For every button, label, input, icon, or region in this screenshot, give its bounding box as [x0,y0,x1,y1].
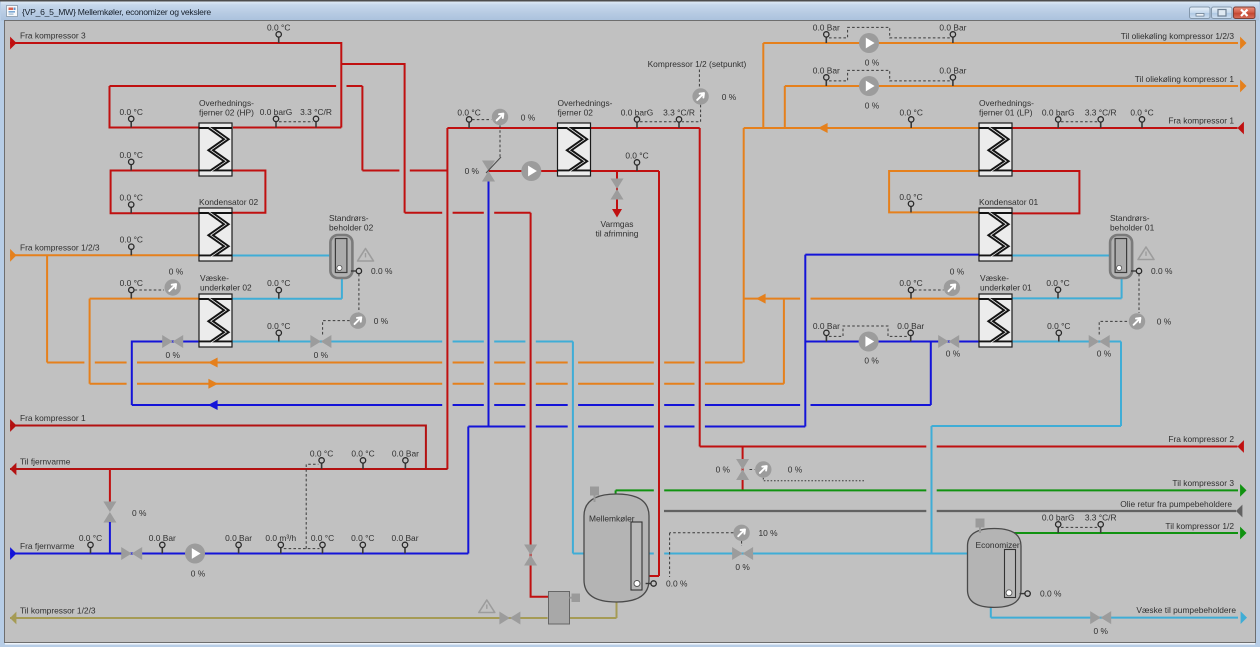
sensor P1 discharge 0.0 Bar [952,34,954,43]
svg-text:Overhednings-: Overhednings- [558,98,613,108]
svg-text:Til oliekøling kompressor 1/2/: Til oliekøling kompressor 1/2/3 [1121,31,1235,41]
svg-text:0.0 Bar: 0.0 Bar [939,22,966,32]
sensor HX01 out 0.0C [1141,119,1143,128]
svg-text:0 %: 0 % [865,58,880,68]
svg-text:Til kompressor 1/2/3: Til kompressor 1/2/3 [20,606,96,616]
valve cyan bus V9 [310,335,331,348]
svg-text:0 %: 0 % [169,267,184,277]
svg-text:0.0 °C: 0.0 °C [120,235,143,245]
svg-text:0.0 °C: 0.0 °C [267,321,290,331]
wire til kompressor 1/2 [1012,532,1238,534]
sensor fra fjernvarme C2 [322,545,324,554]
svg-text:0.0 %: 0.0 % [666,578,688,588]
gauge vaeske01 G6 [944,280,960,296]
svg-text:0.0 °C: 0.0 °C [351,448,374,458]
vessel economizer [968,529,1022,608]
wire vaeske02 bottom feed blue [132,342,199,406]
svg-text:0.0 Bar: 0.0 Bar [392,448,419,458]
sensor til komp 1/2 barG [1057,524,1059,533]
vessel mellemkoler [584,494,649,602]
wire orange main right y128 [744,128,979,363]
svg-text:0.0 °C: 0.0 °C [900,107,923,117]
svg-text:underkøler 02: underkøler 02 [200,283,252,293]
svg-text:Væske til pumpebeholdere: Væske til pumpebeholdere [1136,605,1236,615]
sensor mellemkoler level [646,583,654,585]
stub economizer top [976,519,985,528]
wire HX02HP sensor line [233,127,341,129]
window icon [7,6,18,17]
sensor economizer level [1020,593,1028,595]
wire fra kompressor 1/2/3 [10,254,199,256]
level indicator mellemkoler [631,522,642,590]
svg-text:0 %: 0 % [521,112,536,122]
svg-text:0.0 °C: 0.0 °C [120,150,143,160]
gauge V10 position [733,525,749,541]
wire center pump line [489,171,660,576]
svg-text:Varmgas: Varmgas [601,219,634,229]
svg-text:0.0 °C: 0.0 °C [79,533,102,543]
wire dashed V10 [670,533,742,577]
valve economizer outlet V12 [1090,611,1111,624]
wire dotted gauge V3 tail [763,478,865,481]
svg-text:fjerner 02: fjerner 02 [558,108,594,118]
svg-text:0.0 °C: 0.0 °C [267,22,290,32]
arrow til fjernvarme [10,463,16,476]
arrow til oliekoling 1/2/3 [1240,37,1246,50]
svg-text:0 %: 0 % [950,267,965,277]
wire center box left edge [446,128,448,469]
svg-text:Overhednings-: Overhednings- [199,98,254,108]
sensor HX02HP C/R [315,119,317,128]
sensor fra fjernvarme Bar2 [238,545,240,554]
title bar [1,2,1259,21]
arrow til kompressor 3 [1240,484,1246,497]
svg-text:0 %: 0 % [716,465,731,475]
arrow orange y128 left [818,123,828,133]
wire dashed V3 valve-gauge [750,469,755,471]
svg-text:0.0 Bar: 0.0 Bar [813,22,840,32]
sensor HX01 in 0.0C [910,119,912,128]
svg-text:0.0 °C: 0.0 °C [457,107,480,117]
valve mellemkoler feed V1 [524,545,537,566]
svg-text:0 %: 0 % [165,350,180,360]
svg-text:0.0 barG: 0.0 barG [1042,107,1075,117]
wire vaeske02 feed [90,299,199,384]
svg-text:Overhednings-: Overhednings- [979,98,1034,108]
svg-text:0.0 °C: 0.0 °C [351,533,374,543]
svg-text:0 %: 0 % [1093,626,1108,636]
sensor til komp 1/2 C/R [1100,524,1102,533]
svg-text:0.0 Bar: 0.0 Bar [813,321,840,331]
wire valve drop x489 [488,178,490,427]
valve varmgas V2 [611,179,624,200]
sensor P2 suction 0.0 Bar [825,77,827,86]
wire cyan drop x573 [572,342,574,554]
wire fra kompressor 2 [700,446,1238,448]
wire dashed standror02 [323,274,359,335]
wire fra kompressor 1 left [10,426,426,470]
sensor HX01 C/R [1100,119,1102,128]
wire HX02HP out descent [361,86,363,171]
svg-text:0.0 m³/h: 0.0 m³/h [265,533,296,543]
wire til kompressor 3 [615,490,617,496]
wire dashed green sensors [1061,526,1098,528]
wire til oliekoling 1/2/3 [763,43,1238,128]
wire kondensator02 to standror02 [233,255,332,257]
valve vaeske01 feed V8 [938,335,959,348]
sensor center C/R [678,119,680,128]
wire blue right riser [804,255,806,427]
wire valve drop to suction [742,447,744,491]
svg-text:Kondensator 02: Kondensator 02 [199,197,258,207]
svg-text:0 %: 0 % [946,349,961,359]
wire til kompressor 3 line [616,489,1238,491]
svg-text:0 %: 0 % [314,350,329,360]
arrow til kompressor 1/2 [1240,527,1246,540]
arrow til kompressor 1/2/3 [10,612,16,625]
arrow fra kompressor 1 right [1238,122,1244,135]
wire y170 to center [362,170,447,172]
wire mellemkoler inlet [573,553,584,555]
arrow vaeske til pumpebeholdere [1241,611,1247,624]
sensor HX02HP in 0.0C [130,119,132,128]
level indicator economizer [1005,550,1016,598]
svg-text:3.3 °C/R: 3.3 °C/R [1085,512,1117,522]
wire HX02HP left loop over label [110,85,363,87]
sensor til fjernvarme C2 [362,460,364,469]
wire vaeske01 out cyan [1011,342,1121,427]
svg-text:Standrørs-: Standrørs- [329,213,369,223]
svg-text:0.0 barG: 0.0 barG [621,107,654,117]
heat exchanger overhedningsfjerner 01 LP [979,123,1012,176]
wire varmgas branch [616,171,618,209]
oil receiver box [549,592,570,625]
wire dashed center gauge [472,120,500,158]
wire dashed P4 sensors [829,326,908,336]
svg-text:beholder 02: beholder 02 [329,223,374,233]
svg-text:fjerner 01 (LP): fjerner 01 (LP) [979,108,1033,118]
svg-text:0.0 Bar: 0.0 Bar [813,65,840,75]
svg-text:0 %: 0 % [1097,349,1112,359]
svg-text:Kondensator 01: Kondensator 01 [979,197,1038,207]
valve vaeske01 out V11 [1089,335,1110,348]
heat exchanger overhedningsfjerner 02 HP [199,123,232,176]
gauge V3 position [755,461,771,477]
svg-text:0.0 Bar: 0.0 Bar [225,533,252,543]
sensor standror01 level [1131,270,1139,272]
pump center pump P5 [521,161,541,181]
pump oil pump P1 [859,33,879,53]
wire center right edge to fra kompressor 2 [699,128,701,447]
svg-text:3.3 °C/R: 3.3 °C/R [663,107,695,117]
svg-text:Olie retur fra pumpebeholdere: Olie retur fra pumpebeholdere [1120,499,1232,509]
svg-text:0 %: 0 % [722,92,737,102]
sensor fra fjernvarme flow [280,545,282,554]
svg-text:0 %: 0 % [374,316,389,326]
svg-text:0.0 %: 0.0 % [371,266,393,276]
wire mellemkoler feed vertical [531,213,549,597]
wire HX02HP bottom-right loop [233,171,266,213]
svg-text:Til kompressor 3: Til kompressor 3 [1172,478,1234,488]
arrow y298 left [756,294,766,304]
wire dashed fjernvarme transmitters [284,464,320,548]
svg-text:Fra kompressor 3: Fra kompressor 3 [20,31,86,41]
svg-text:0.0 °C: 0.0 °C [267,278,290,288]
wire mellemkoler outlet to economizer [649,553,968,555]
vessel standror 02 [330,235,352,278]
sensor vaeske01 out 0.0C [1057,290,1059,299]
svg-text:0.0 Bar: 0.0 Bar [897,321,924,331]
valve hot gas bypass V3 [736,459,749,480]
arrow bus y405 left [208,400,218,410]
wire fjernvarme connector blue [109,522,111,554]
wire fra kompressor 1 red right [1011,127,1238,129]
wire dashed HP sensors [279,121,313,123]
svg-text:0 %: 0 % [191,569,206,579]
wire fra kompressor 3 feed [10,43,341,128]
wire standror02 drain [233,277,342,299]
sensor center pump 0.0C [636,162,638,171]
sensor center barG [636,119,638,128]
svg-text:0.0 °C: 0.0 °C [311,533,334,543]
wire cyan drop x931 [931,426,933,554]
arrow fra kompressor 1 left [10,419,16,432]
svg-text:Mellemkøler: Mellemkøler [589,514,635,524]
svg-text:Fra kompressor 1: Fra kompressor 1 [1168,116,1234,126]
svg-text:0.0 °C: 0.0 °C [310,448,333,458]
svg-text:0.0 Bar: 0.0 Bar [149,533,176,543]
wire dashed HX01 sensors [1061,121,1098,123]
arrow fra kompressor 1/2/3 [10,249,16,262]
wire fjernvarme connector red [109,469,111,502]
valve fjernvarme inlet V7 [121,547,142,560]
sensor fra fjernvarme C3 [362,545,364,554]
svg-text:0.0 °C: 0.0 °C [899,192,922,202]
wire dashed setpunkt [698,70,700,89]
wire orange drop x47 [46,255,48,362]
wire blue bus y405 [132,404,931,406]
pump vaeske01 pump P4 [859,332,879,352]
wire dashed vaeske01 gauge [914,289,944,291]
wire dashed vaeske02 gauge [135,289,165,291]
warning triangle olive line [479,600,495,613]
svg-text:Standrørs-: Standrørs- [1110,213,1150,223]
svg-text:{VP_6_5_MW} Mellemkøler, econo: {VP_6_5_MW} Mellemkøler, economizer og v… [22,7,211,17]
wire HX02HP left port [110,86,200,128]
svg-text:Fra kompressor 1: Fra kompressor 1 [20,413,86,423]
sensor standror02 level [351,270,359,272]
vessel standror 01 [1110,235,1132,278]
wire dashed P2 sensors [829,70,950,81]
arrow olie retur [1236,505,1242,518]
wire standror01 feed [1011,255,1110,257]
svg-text:0 %: 0 % [1157,317,1172,327]
svg-text:3.3 °C/R: 3.3 °C/R [1085,107,1117,117]
wire dashed center sensors [640,105,701,122]
valve fjernvarme connector V4 [103,502,116,523]
heat exchanger overhedningsfjerner 02 center [558,123,591,176]
wire olie retur [664,510,1236,512]
svg-text:0.0 Bar: 0.0 Bar [391,533,418,543]
gauge standror02 G1 [350,313,366,329]
svg-text:0.0 barG: 0.0 barG [260,107,293,117]
sensor til fjernvarme C1 [321,460,323,469]
sensor vaeske02 in 0.0C [130,290,132,299]
svg-text:0 %: 0 % [132,508,147,518]
pump oil pump P2 [859,76,879,96]
sensor fra fjernvarme Bar1 [161,545,163,554]
svg-text:0.0 °C: 0.0 °C [625,150,648,160]
wire HX01 to kondensator01 loop [1011,171,1079,213]
gauge standror01 G2 [1129,313,1145,329]
gauge vaeske02 G3 [165,279,181,295]
valve center charge V6 [482,161,495,182]
stub mellemkoler top [590,487,599,496]
valve vaeske02 feed V5 [162,335,183,348]
svg-text:0 %: 0 % [865,101,880,111]
arrow bus y362 left [208,358,218,368]
valve mellemkoler outlet V10 [732,547,753,560]
arrow fra fjernvarme [10,547,16,560]
sensor cyan bus 0.0C [278,333,280,342]
svg-text:3.3 °C/R: 3.3 °C/R [300,107,332,117]
svg-text:beholder 01: beholder 01 [1110,223,1155,233]
svg-text:Til kompressor 1/2: Til kompressor 1/2 [1165,521,1234,531]
sensor bracket02 0.0C [130,162,132,171]
wire dashed standror01 [1099,274,1139,335]
sensor frakomp123 0.0C [130,247,132,256]
minimize button [1190,7,1211,19]
wire hot gas center feed y213 [405,212,531,214]
svg-text:Fra kompressor 1/2/3: Fra kompressor 1/2/3 [20,243,100,253]
maximize button [1212,7,1233,19]
svg-text:0 %: 0 % [788,465,803,475]
svg-text:0.0 °C: 0.0 °C [1046,278,1069,288]
svg-text:Væske-: Væske- [980,273,1009,283]
sensor P4 suction 0.0 Bar [825,333,827,342]
wire center top line y128 [447,127,699,129]
svg-text:0.0 %: 0.0 % [1040,588,1062,598]
arrow fra kompressor 3 edge [10,37,16,50]
svg-text:0 %: 0 % [864,356,879,366]
close button [1234,7,1256,19]
svg-text:Fra fjernvarme: Fra fjernvarme [20,541,75,551]
sensor fra fjernvarme C1 [90,545,92,554]
wire standror01 drain [1011,277,1122,298]
wire blue drop x468 [467,427,469,554]
wire vaeske01 feed y298 [744,298,979,300]
wire orange bus y384 [90,383,784,385]
svg-text:0.0 °C: 0.0 °C [1130,107,1153,117]
svg-text:0.0 °C: 0.0 °C [120,278,143,288]
gauge center G4 [492,109,508,125]
sensor kond01 in 0.0C [910,204,912,213]
wire red bracket kondensator02 [111,171,199,214]
wire orange drop x784 [783,299,785,384]
gauge setpunkt G5 [692,88,708,104]
bottom frame highlight [5,643,1255,645]
svg-text:0.0 °C: 0.0 °C [899,278,922,288]
sensor P2 discharge 0.0 Bar [952,77,954,86]
sensor center top 0.0C [468,119,470,128]
heat exchanger vaeskeunderkoler 01 [979,294,1012,347]
svg-text:til afrimning: til afrimning [596,229,639,239]
node T junction komp3 branch [341,64,404,213]
sensor til fjernvarme Bar [404,460,406,469]
svg-text:0 %: 0 % [465,166,480,176]
warning triangle standror02 [358,249,374,262]
arrow bus y384 right [208,379,218,389]
warning triangle standror01 [1138,247,1154,260]
wire til fjernvarme [10,468,448,470]
heat exchanger kondensator 02 [199,208,232,261]
wire til kompressor 1/2/3 olive [10,600,617,618]
svg-text:0.0 barG: 0.0 barG [1042,512,1075,522]
sensor vaeske01 cyan 0.0C [1058,333,1060,342]
sensor vaeske02 out 0.0C [278,290,280,299]
svg-text:0.0 %: 0.0 % [1151,266,1173,276]
wire pump line right [805,341,979,343]
sensor komp3 0.0C [278,34,280,43]
svg-text:Til fjernvarme: Til fjernvarme [20,457,71,467]
sensor fra fjernvarme Bar3 [404,545,406,554]
window top edge [0,0,1260,2]
svg-text:0.0 °C: 0.0 °C [1047,321,1070,331]
wire cyan bus y341 [233,341,573,343]
arrow varmgas down [612,209,622,218]
wire blue bus y426 [468,426,805,428]
svg-text:underkøler 01: underkøler 01 [980,283,1032,293]
svg-text:0.0 °C: 0.0 °C [120,193,143,203]
svg-text:Til oliekøling kompressor 1: Til oliekøling kompressor 1 [1135,74,1235,84]
pump fjernvarme pump P3 [185,544,205,564]
wire economizer outlet [991,605,1238,618]
wire kondensator01 bottom left [805,254,979,256]
wire blue riser x931 [930,342,932,406]
svg-text:fjerner 02 (HP): fjerner 02 (HP) [199,108,254,118]
wire dashed P1 sensors [829,27,950,38]
svg-text:Economizer: Economizer [976,540,1020,550]
sensor kond02 in 0.0C [130,205,132,214]
sensor P4 discharge 0.0 Bar [910,333,912,342]
arrow fra kompressor 2 [1238,440,1244,453]
sensor P1 suction 0.0 Bar [825,34,827,43]
arrow til oliekoling 1 [1240,80,1246,93]
sensor HX02HP barG [275,119,277,128]
svg-text:0 %: 0 % [735,562,750,572]
wire fra fjernvarme [10,553,468,555]
sensor vaeske01 in 0.0C [910,290,912,299]
sensor HX01 barG [1057,119,1059,128]
svg-text:Fra kompressor 2: Fra kompressor 2 [1168,434,1234,444]
heat exchanger vaeskeunderkoler 02 [199,294,232,347]
wire til oliekoling 1 [785,86,1238,128]
wire cyan y426 right [932,425,1122,427]
wire orange bracket kondensator01 [889,171,979,212]
svg-text:Kompressor 1/2 (setpunkt): Kompressor 1/2 (setpunkt) [648,59,747,69]
svg-text:Væske-: Væske- [200,273,229,283]
svg-text:0.0 Bar: 0.0 Bar [939,65,966,75]
svg-text:0.0 °C: 0.0 °C [120,107,143,117]
svg-text:10 %: 10 % [758,528,778,538]
heat exchanger kondensator 01 [979,208,1012,261]
wire orange bus y362 [47,362,743,364]
valve olive V13 [499,612,520,625]
